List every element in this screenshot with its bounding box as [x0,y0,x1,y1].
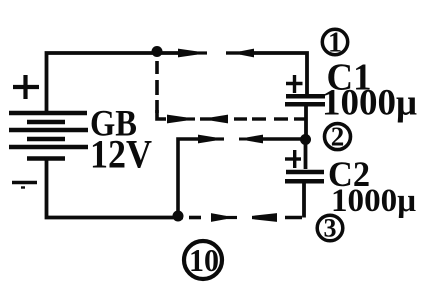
wire: C1 bottom stem down to node 2 [304,105,308,140]
terminal circle node 2 [325,124,351,150]
wire: top-right horizontal into C1 stem [251,53,307,95]
capacitor C1 bottom plate [285,102,325,107]
capacitor C2 polarity + mark [285,150,301,168]
wire: battery - lead down to bottom-left corner [47,157,184,218]
wire: C2 bottom stem down to bottom dashed run [302,181,306,218]
svg-text:10: 10 [189,242,219,278]
dashes on middle dashed run to C1 stem [234,117,305,120]
dash on bottom dashed run [189,216,201,220]
current arrow left on bottom dashed run [252,213,277,222]
wire: battery + lead and top-left horizontal run [47,53,179,112]
terminal circle node 3 [317,215,343,241]
current arrow right on bottom dashed run [211,213,237,222]
dashed current path corner into middle dashed run [157,110,166,119]
svg-text:2: 2 [331,122,345,152]
current arrow left on middle dashed run [211,115,228,124]
capacitor C2 top plate [286,170,324,175]
capacitor C1 top plate [286,94,325,99]
dashed current path: vertical drop from top junction [155,61,159,113]
wire segment (dash) on top wire [226,51,241,54]
current arrow right on top wire [178,49,207,58]
figure number circle 10 [184,241,222,279]
junction dot node 2 [300,134,311,145]
wire: node 2 down to C2 [304,139,308,169]
svg-text:1: 1 [328,27,342,58]
battery plus terminal label [13,75,39,99]
wire: middle vertical and middle horizontal run [178,139,198,214]
svg-text:12V: 12V [90,132,152,177]
current arrow left on middle wire [239,138,249,141]
svg-text:1000μ: 1000μ [331,183,416,219]
battery minus terminal label [12,181,37,184]
battery GB plates [9,113,88,159]
current arrow right on middle dashed run [167,115,195,124]
capacitor C1 polarity + mark [286,75,303,93]
terminal circle node 1 [322,29,347,54]
node A junction dot on top wire [152,46,163,57]
svg-text:1000μ: 1000μ [322,83,417,124]
current arrow right on middle wire [198,135,224,144]
capacitor C2 bottom plate [285,179,324,184]
dash on bottom dashed run into C2 stem [285,216,302,220]
wire: middle run into node 2 [262,137,304,141]
dash on middle dashed run [200,117,211,120]
current arrow left on top wire [240,49,254,58]
junction dot on bottom wire [173,211,184,222]
